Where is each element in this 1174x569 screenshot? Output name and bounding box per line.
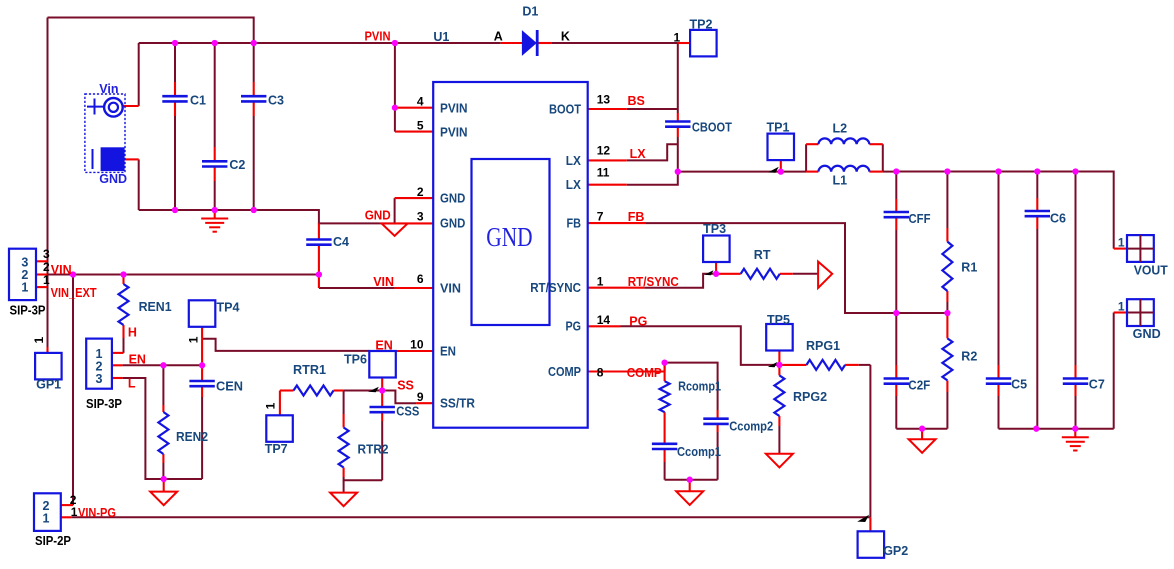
- svg-text:13: 13: [597, 93, 611, 107]
- svg-text:LX: LX: [566, 153, 581, 168]
- svg-text:GND: GND: [365, 208, 391, 222]
- svg-text:SS/TR: SS/TR: [440, 396, 476, 411]
- svg-text:TP1: TP1: [767, 121, 790, 135]
- svg-text:RTR2: RTR2: [358, 442, 389, 456]
- svg-text:SS: SS: [397, 378, 414, 392]
- svg-text:1: 1: [1118, 235, 1125, 249]
- svg-text:REN1: REN1: [139, 300, 172, 314]
- svg-text:1: 1: [43, 273, 50, 287]
- svg-text:6: 6: [417, 272, 424, 286]
- svg-text:BOOT: BOOT: [549, 101, 581, 116]
- svg-text:VIN: VIN: [51, 263, 72, 277]
- svg-text:COMP: COMP: [627, 366, 662, 380]
- svg-text:GND: GND: [440, 190, 465, 205]
- svg-text:COMP: COMP: [548, 364, 581, 379]
- svg-text:TP6: TP6: [344, 353, 367, 367]
- svg-text:PVIN: PVIN: [365, 30, 391, 44]
- svg-text:GND: GND: [486, 222, 532, 252]
- svg-text:C6: C6: [1050, 212, 1066, 226]
- svg-text:5: 5: [417, 119, 424, 133]
- svg-text:TP4: TP4: [217, 300, 240, 314]
- svg-text:14: 14: [597, 313, 611, 327]
- svg-text:1: 1: [1118, 299, 1125, 313]
- svg-text:CSS: CSS: [396, 405, 419, 419]
- svg-text:GP2: GP2: [883, 544, 908, 558]
- svg-text:C7: C7: [1089, 378, 1105, 392]
- svg-text:VIN: VIN: [373, 275, 394, 289]
- svg-text:K: K: [561, 29, 570, 43]
- svg-text:1: 1: [43, 512, 50, 526]
- svg-text:R2: R2: [961, 350, 977, 364]
- svg-text:EN: EN: [375, 338, 392, 352]
- svg-text:TP2: TP2: [690, 18, 713, 32]
- svg-text:GP1: GP1: [36, 377, 61, 391]
- svg-text:1: 1: [187, 336, 201, 343]
- svg-text:C2F: C2F: [908, 378, 930, 392]
- svg-text:A: A: [494, 29, 503, 43]
- svg-text:C4: C4: [333, 235, 349, 249]
- svg-text:CBOOT: CBOOT: [692, 121, 732, 135]
- svg-text:RPG2: RPG2: [793, 390, 827, 404]
- svg-text:D1: D1: [522, 5, 538, 19]
- svg-text:Ccomp1: Ccomp1: [677, 445, 721, 459]
- svg-text:GND: GND: [1133, 327, 1161, 341]
- svg-text:LX: LX: [566, 177, 581, 192]
- svg-text:U1: U1: [433, 30, 449, 44]
- svg-text:3: 3: [96, 372, 103, 386]
- svg-text:C2: C2: [229, 158, 245, 172]
- svg-text:H: H: [128, 326, 137, 340]
- svg-text:10: 10: [410, 337, 424, 351]
- svg-text:RPG1: RPG1: [806, 339, 840, 353]
- svg-text:VOUT: VOUT: [1134, 263, 1168, 277]
- svg-text:Ccomp2: Ccomp2: [729, 419, 773, 433]
- svg-text:12: 12: [597, 144, 611, 158]
- svg-text:C3: C3: [268, 93, 284, 107]
- svg-text:TP3: TP3: [703, 222, 726, 236]
- svg-text:PG: PG: [566, 319, 582, 334]
- svg-text:GND: GND: [440, 216, 465, 231]
- svg-text:PVIN: PVIN: [440, 124, 468, 139]
- svg-text:EN: EN: [440, 343, 456, 358]
- svg-text:VIN-PG: VIN-PG: [78, 506, 116, 520]
- svg-text:RT/SYNC: RT/SYNC: [530, 280, 581, 295]
- svg-text:VIN: VIN: [440, 280, 461, 295]
- svg-text:3: 3: [43, 247, 50, 261]
- svg-text:1: 1: [21, 280, 28, 294]
- svg-text:C1: C1: [190, 93, 206, 107]
- svg-text:1: 1: [71, 505, 78, 519]
- svg-text:R1: R1: [961, 261, 977, 275]
- svg-text:1: 1: [32, 337, 46, 344]
- svg-text:SIP-3P: SIP-3P: [10, 303, 46, 317]
- svg-text:PG: PG: [629, 315, 647, 329]
- svg-text:BS: BS: [628, 94, 645, 108]
- svg-text:SIP-2P: SIP-2P: [35, 534, 71, 548]
- svg-text:11: 11: [597, 165, 610, 179]
- svg-text:RTR1: RTR1: [293, 363, 326, 377]
- svg-text:L1: L1: [833, 173, 848, 187]
- svg-text:L: L: [128, 376, 136, 390]
- svg-text:4: 4: [417, 95, 424, 109]
- svg-text:2: 2: [43, 260, 50, 274]
- svg-text:SIP-3P: SIP-3P: [86, 397, 122, 411]
- svg-text:EN: EN: [129, 352, 146, 366]
- svg-text:PVIN: PVIN: [440, 100, 468, 115]
- svg-text:RT: RT: [754, 248, 771, 262]
- svg-text:Rcomp1: Rcomp1: [678, 379, 721, 393]
- svg-text:3: 3: [417, 210, 424, 224]
- svg-text:Vin: Vin: [99, 82, 118, 96]
- svg-text:1: 1: [264, 402, 278, 409]
- svg-text:7: 7: [597, 209, 604, 223]
- svg-text:2: 2: [417, 185, 424, 199]
- svg-text:1: 1: [674, 30, 681, 44]
- svg-text:CFF: CFF: [909, 212, 931, 226]
- svg-text:LX: LX: [630, 147, 647, 161]
- svg-text:GND: GND: [99, 172, 127, 186]
- svg-text:CEN: CEN: [216, 380, 243, 394]
- svg-text:8: 8: [597, 365, 604, 379]
- svg-text:RT/SYNC: RT/SYNC: [628, 275, 679, 289]
- svg-text:TP7: TP7: [265, 442, 288, 456]
- svg-text:C5: C5: [1011, 378, 1027, 392]
- svg-text:L2: L2: [833, 122, 848, 136]
- svg-text:REN2: REN2: [176, 430, 208, 444]
- svg-text:FB: FB: [567, 215, 582, 230]
- svg-text:VIN_EXT: VIN_EXT: [51, 286, 97, 300]
- svg-text:TP5: TP5: [767, 313, 790, 327]
- svg-text:FB: FB: [628, 210, 645, 224]
- svg-text:1: 1: [597, 274, 604, 288]
- svg-text:9: 9: [417, 390, 424, 404]
